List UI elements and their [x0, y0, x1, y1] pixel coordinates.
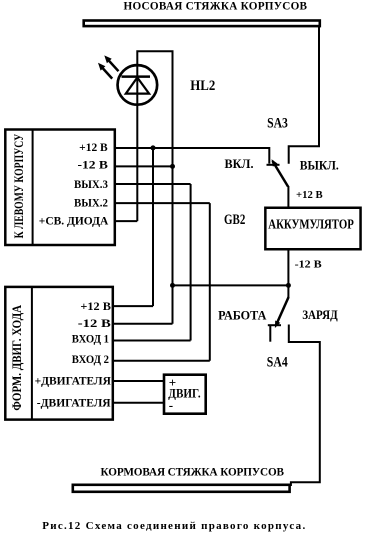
svg-text:ФОРМ. ДВИГ. ХОДА: ФОРМ. ДВИГ. ХОДА — [10, 305, 24, 411]
svg-text:ВКЛ.: ВКЛ. — [225, 156, 254, 171]
svg-text:КОРМОВАЯ СТЯЖКА КОРПУСОВ: КОРМОВАЯ СТЯЖКА КОРПУСОВ — [101, 467, 285, 479]
svg-text:SA3: SA3 — [267, 116, 288, 132]
svg-text:GB2: GB2 — [224, 212, 245, 228]
svg-text:ВЫКЛ.: ВЫКЛ. — [300, 157, 339, 172]
svg-text:HL2: HL2 — [190, 78, 215, 94]
svg-text:-ДВИГАТЕЛЯ: -ДВИГАТЕЛЯ — [37, 397, 111, 409]
svg-text:НОСОВАЯ СТЯЖКА КОРПУСОВ: НОСОВАЯ СТЯЖКА КОРПУСОВ — [124, 0, 308, 12]
svg-text:-12 В: -12 В — [78, 318, 112, 330]
svg-text:+12 В: +12 В — [296, 189, 323, 201]
svg-text:-: - — [169, 397, 173, 412]
svg-text:-12 В: -12 В — [295, 259, 322, 271]
svg-text:SA4: SA4 — [267, 354, 288, 370]
svg-text:+СВ. ДИОДА: +СВ. ДИОДА — [39, 215, 109, 227]
svg-text:ЗАРЯД: ЗАРЯД — [302, 308, 338, 322]
svg-text:ВХОД 1: ВХОД 1 — [72, 334, 110, 346]
svg-text:К ЛЕВОМУ КОРПУСУ: К ЛЕВОМУ КОРПУСУ — [11, 133, 26, 238]
svg-text:ВЫХ.2: ВЫХ.2 — [74, 198, 108, 210]
svg-text:-12 В: -12 В — [78, 160, 109, 172]
svg-text:+12 В: +12 В — [80, 301, 111, 313]
svg-text:+ДВИГАТЕЛЯ: +ДВИГАТЕЛЯ — [35, 376, 111, 388]
svg-text:ВЫХ.3: ВЫХ.3 — [74, 179, 108, 191]
svg-text:+12 В: +12 В — [79, 142, 108, 154]
svg-text:АККУМУЛЯТОР: АККУМУЛЯТОР — [268, 217, 354, 232]
svg-text:Рис.12 Схема соединений правог: Рис.12 Схема соединений правого корпуса. — [42, 520, 305, 532]
svg-text:ВХОД 2: ВХОД 2 — [72, 354, 110, 366]
svg-text:РАБОТА: РАБОТА — [218, 309, 267, 323]
